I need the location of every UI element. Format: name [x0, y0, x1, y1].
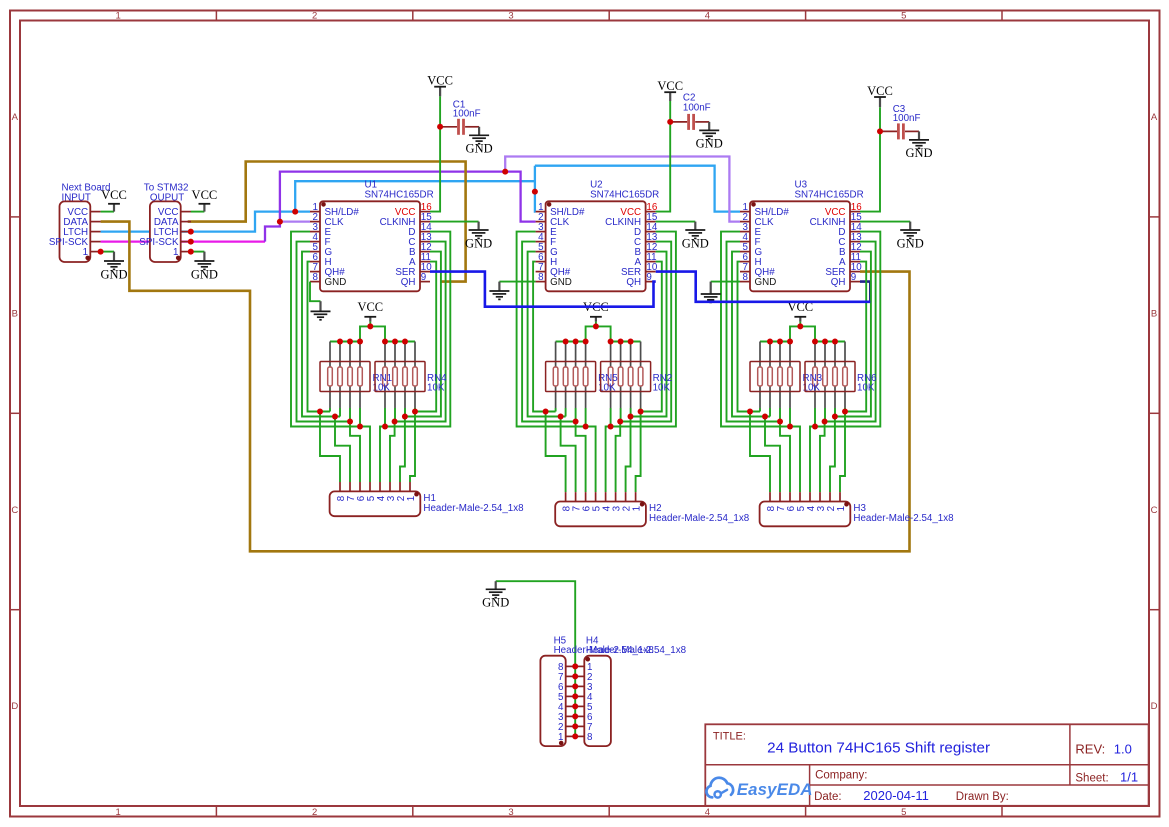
wire U3 pin11 A loop — [840, 262, 866, 493]
wire VCC rail RN2 — [596, 326, 641, 341]
svg-text:4: 4 — [705, 11, 710, 22]
junction row — [762, 414, 768, 420]
capacitor C3 100nF — [880, 104, 920, 139]
wire U3 pin12 B loop — [830, 252, 871, 493]
resistor leg 8 — [638, 342, 643, 412]
junction row — [332, 414, 338, 420]
svg-text:10K: 10K — [857, 383, 875, 394]
power VCC symbol top — [657, 79, 683, 101]
junction rail — [573, 339, 579, 345]
svg-text:2020-04-11: 2020-04-11 — [863, 788, 929, 803]
svg-text:Header-Male-2.54_1x8: Header-Male-2.54_1x8 — [853, 513, 954, 524]
wire U3 pin3 E loop — [721, 232, 800, 493]
svg-text:VCC: VCC — [427, 74, 453, 88]
junction row — [357, 424, 363, 430]
resistor leg 5 — [383, 342, 388, 427]
power VCC symbol — [357, 300, 383, 327]
resistor network RN1 box — [320, 362, 392, 394]
svg-text:QH: QH — [626, 277, 641, 288]
svg-text:QH: QH — [401, 277, 416, 288]
junction row — [787, 424, 793, 430]
junction cap — [437, 124, 443, 130]
wire U2 pin8 GND — [499, 281, 535, 283]
junction row — [583, 424, 589, 430]
wire U1 pin14 D loop — [380, 232, 450, 482]
wire U3 pin5 G loop — [732, 252, 770, 417]
resistor leg 8 — [413, 342, 418, 412]
svg-text:Sheet:: Sheet: — [1075, 772, 1108, 784]
junction SH/LD node U1 — [292, 209, 298, 215]
junction rail — [563, 339, 569, 345]
junction H4/H5 pin — [572, 673, 578, 679]
resistor leg 6 — [618, 342, 623, 422]
wire U3 pin15 CLKINH to GND — [860, 221, 910, 223]
wire U3 pin4 F loop — [727, 242, 791, 493]
junction row — [842, 409, 848, 415]
junction rail — [812, 339, 818, 345]
resistor network RN2 box — [601, 362, 673, 394]
svg-text:REV:: REV: — [1075, 741, 1105, 756]
wire LTCH net (cyan) — [101, 166, 740, 232]
svg-text:C: C — [1151, 505, 1158, 516]
junction SPI-SCK node mid — [502, 169, 508, 175]
wire DATA loop B (dark yellow) — [188, 162, 466, 282]
wire VCC rail RN6 — [800, 326, 845, 341]
svg-text:GND: GND — [755, 277, 777, 288]
junction row — [822, 419, 828, 425]
wire pin-1 to GND — [101, 251, 114, 253]
junction row — [638, 409, 644, 415]
svg-text:1.0: 1.0 — [1114, 741, 1132, 756]
junction row — [412, 409, 418, 415]
wire U2 pin6 H loop — [533, 262, 556, 412]
resistor leg 2 — [768, 342, 773, 417]
wire U2 pin14 D loop — [606, 232, 676, 493]
junction row — [777, 419, 783, 425]
power VCC symbol top — [427, 74, 453, 97]
junction rail — [777, 339, 783, 345]
junction row — [832, 414, 838, 420]
resistor leg 1 — [758, 342, 763, 412]
junction rail — [822, 339, 828, 345]
svg-text:GND: GND — [696, 137, 723, 151]
EasyEDA logo — [706, 778, 812, 799]
svg-text:Header-Male-2.54_1x8: Header-Male-2.54_1x8 — [586, 645, 687, 656]
IC U1 SN74HC165DR — [310, 180, 434, 292]
wire U2 pin13 C loop — [616, 242, 672, 493]
wire CLK U1 (light violet) — [280, 221, 310, 223]
wire U2 pin11 A loop — [636, 262, 662, 493]
junction CLK node — [277, 219, 283, 225]
svg-text:SN74HC165DR: SN74HC165DR — [590, 190, 659, 201]
junction VCC — [367, 323, 373, 329]
resistor leg 6 — [393, 342, 398, 422]
junction row — [608, 424, 614, 430]
wire U2 pin12 B loop — [626, 252, 667, 493]
svg-text:Header-Male-2.54_1x8: Header-Male-2.54_1x8 — [649, 513, 750, 524]
junction rail — [628, 339, 634, 345]
junction — [188, 249, 194, 255]
svg-text:Company:: Company: — [815, 770, 867, 782]
junction H4/H5 pin — [572, 703, 578, 709]
wire U1 pin4 F loop — [297, 242, 361, 482]
header H3 Header-Male-2.54_1x8 — [760, 492, 955, 526]
svg-text:1: 1 — [116, 11, 121, 22]
wire U3 pin6 H loop — [738, 262, 761, 412]
capacitor C2 100nF — [670, 93, 710, 130]
junction H4/H5 pin — [572, 693, 578, 699]
IC U2 SN74HC165DR — [536, 180, 660, 292]
junction rail — [832, 339, 838, 345]
svg-text:VCC: VCC — [357, 300, 383, 314]
wire U2 pin5 G loop — [528, 252, 566, 417]
svg-text:GND: GND — [905, 146, 932, 160]
resistor network RN5 box — [546, 362, 619, 394]
power VCC symbol top — [867, 84, 893, 107]
junction rail — [382, 339, 388, 345]
junction LTCH — [188, 229, 194, 235]
ground symbol U1 pin8 — [311, 301, 331, 320]
resistor network RN4 box — [375, 362, 447, 394]
header H4 Header-Male-2.54_1x8 — [576, 636, 687, 747]
svg-text:C: C — [11, 505, 18, 516]
junction H4/H5 pin — [572, 723, 578, 729]
svg-text:SN74HC165DR: SN74HC165DR — [795, 190, 864, 201]
junction row — [747, 409, 753, 415]
junction — [98, 249, 104, 255]
wire U3 pin16 VCC — [860, 107, 880, 211]
header H1 Header-Male-2.54_1x8 — [330, 482, 525, 516]
ground symbol — [100, 252, 127, 282]
connector OUPUT header — [139, 183, 191, 263]
junction row — [382, 424, 388, 430]
ground symbol CLKINH — [465, 222, 492, 251]
wire DATA loop A (dark yellow) — [101, 222, 910, 552]
svg-text:10K: 10K — [427, 383, 445, 394]
junction rail — [392, 339, 398, 345]
wire U2 pin4 F loop — [522, 242, 586, 493]
wire U3.QH elbow (navy) — [860, 282, 870, 302]
svg-text:GND: GND — [897, 236, 924, 250]
svg-text:100nF: 100nF — [683, 103, 711, 114]
svg-text:B: B — [12, 308, 18, 319]
ground symbol U3 pin8 — [701, 282, 721, 303]
junction row — [628, 414, 634, 420]
svg-text:Header-Male-2.54_1x8: Header-Male-2.54_1x8 — [423, 503, 524, 514]
capacitor C1 100nF — [440, 100, 480, 135]
svg-text:A: A — [1151, 112, 1158, 123]
ground symbol U2 pin8 — [489, 282, 509, 300]
wire VCC rail RN5 — [556, 326, 596, 341]
wire U2 pin3 E loop — [517, 232, 596, 493]
header H2 Header-Male-2.54_1x8 — [555, 492, 750, 526]
power VCC symbol — [583, 300, 609, 327]
junction rail — [337, 339, 343, 345]
resistor leg 3 — [348, 342, 353, 422]
wire U3 pin13 C loop — [820, 242, 876, 493]
svg-text:8: 8 — [538, 272, 544, 283]
wire U1 pin15 CLKINH to GND — [430, 221, 479, 223]
junction rail — [787, 339, 793, 345]
svg-text:QH: QH — [831, 277, 846, 288]
ground symbol cap — [696, 122, 723, 151]
junction SPI-SCK — [188, 239, 194, 245]
svg-text:GND: GND — [100, 267, 127, 281]
resistor leg 1 — [328, 342, 333, 412]
junction cap — [877, 128, 883, 134]
resistor leg 3 — [573, 342, 578, 422]
resistor leg 8 — [843, 342, 848, 412]
svg-text:GND: GND — [325, 277, 347, 288]
wire GND to H4 bus — [496, 581, 576, 736]
svg-text:8: 8 — [587, 732, 593, 743]
svg-text:OUPUT: OUPUT — [150, 193, 184, 204]
resistor leg 7 — [833, 342, 838, 417]
junction rail — [347, 339, 353, 345]
svg-text:EasyEDA: EasyEDA — [737, 780, 813, 799]
wire drop to header pin8 — [546, 412, 566, 493]
junction rail — [767, 339, 773, 345]
svg-text:GND: GND — [682, 236, 709, 250]
resistor leg 2 — [563, 342, 568, 417]
junction row — [317, 409, 323, 415]
junction H4/H5 pin — [572, 663, 578, 669]
svg-text:D: D — [11, 701, 18, 712]
junction rail — [357, 339, 363, 345]
svg-text:24 Button 74HC165 Shift regist: 24 Button 74HC165 Shift register — [767, 739, 990, 756]
svg-text:1: 1 — [406, 496, 417, 501]
ground symbol cap — [905, 131, 932, 160]
wire U1 pin5 G loop — [302, 252, 340, 417]
junction row — [402, 414, 408, 420]
svg-text:1: 1 — [836, 506, 847, 511]
wire SPI-SCK net (violet) — [265, 157, 740, 242]
header H5 Header-Male-2.54_1x8 — [540, 636, 654, 747]
junction rail — [608, 339, 614, 345]
junction row — [573, 419, 579, 425]
svg-text:3: 3 — [508, 11, 513, 22]
svg-text:INPUT: INPUT — [62, 193, 91, 204]
svg-text:TITLE:: TITLE: — [713, 731, 746, 743]
wire U2.SER to U3.QH (blue) — [656, 272, 871, 302]
wire drop to header pin8 — [320, 412, 340, 483]
svg-text:VCC: VCC — [101, 188, 127, 202]
wire pin-1 to GND — [191, 251, 205, 253]
svg-text:D: D — [1151, 701, 1158, 712]
connector INPUT header — [49, 183, 111, 263]
svg-text:GND: GND — [465, 236, 492, 250]
junction VCC — [593, 323, 599, 329]
svg-text:5: 5 — [901, 807, 906, 818]
svg-text:Date:: Date: — [814, 791, 842, 803]
svg-text:100nF: 100nF — [893, 113, 921, 124]
junction rail — [618, 339, 624, 345]
svg-text:2: 2 — [312, 11, 317, 22]
junction VCC — [797, 323, 803, 329]
svg-text:SN74HC165DR: SN74HC165DR — [365, 190, 434, 201]
resistor leg 5 — [813, 342, 818, 427]
junction row — [347, 419, 353, 425]
resistor leg 1 — [553, 342, 558, 412]
svg-text:9: 9 — [421, 272, 426, 283]
svg-text:2: 2 — [312, 807, 317, 818]
junction H4/H5 pin — [572, 683, 578, 689]
svg-text:GND: GND — [191, 267, 218, 281]
wire U3 pin8 GND — [711, 281, 740, 283]
junction SH/LD node U2 — [532, 189, 538, 195]
junction row — [543, 409, 549, 415]
ground symbol cap — [466, 127, 493, 156]
ground symbol — [191, 252, 218, 282]
junction row — [558, 414, 564, 420]
svg-text:VCC: VCC — [192, 188, 218, 202]
wire drop to header pin7 — [765, 417, 780, 493]
svg-text:5: 5 — [901, 11, 906, 22]
junction row — [392, 419, 398, 425]
wire VCC rail RN1 — [330, 326, 370, 341]
junction H4/H5 pin — [572, 713, 578, 719]
resistor leg 4 — [788, 342, 793, 427]
junction rail — [583, 339, 589, 345]
junction row — [812, 424, 818, 430]
resistor leg 2 — [338, 342, 343, 417]
power VCC symbol — [192, 188, 218, 212]
resistor network RN6 box — [805, 362, 877, 394]
svg-text:B: B — [1151, 308, 1157, 319]
power VCC symbol — [101, 188, 127, 212]
wire U1 pin12 B loop — [400, 252, 441, 482]
svg-text:3: 3 — [508, 807, 513, 818]
svg-text:8: 8 — [313, 272, 319, 283]
ground symbol CLKINH — [897, 222, 924, 251]
svg-text:1: 1 — [116, 807, 121, 818]
ground symbol H4 bus — [482, 581, 509, 609]
wire drop to header pin7 — [335, 417, 350, 483]
resistor leg 6 — [823, 342, 828, 422]
svg-text:A: A — [12, 112, 19, 123]
resistor leg 3 — [778, 342, 783, 422]
wire U2 pin15 CLKINH to GND — [656, 221, 696, 223]
svg-text:8: 8 — [743, 272, 749, 283]
junction rail — [402, 339, 408, 345]
wire U1 pin8 GND — [310, 282, 321, 302]
wire U1 pin16 VCC — [430, 96, 440, 211]
svg-text:GND: GND — [550, 277, 572, 288]
svg-text:10K: 10K — [653, 383, 671, 394]
svg-text:9: 9 — [646, 272, 651, 283]
wire VCC rail RN3 — [760, 326, 800, 341]
svg-text:100nF: 100nF — [453, 109, 481, 120]
junction row — [617, 419, 623, 425]
svg-text:GND: GND — [482, 596, 509, 610]
title block — [705, 724, 1148, 806]
wire VCC rail RN4 — [370, 326, 415, 341]
resistor leg 7 — [403, 342, 408, 417]
svg-text:Drawn By:: Drawn By: — [956, 791, 1009, 803]
wire drop to header pin8 — [750, 412, 770, 493]
wire VCC pin — [191, 211, 205, 213]
wire VCC pin — [101, 211, 114, 213]
svg-text:VCC: VCC — [867, 84, 893, 98]
resistor leg 4 — [358, 342, 363, 427]
resistor network RN3 box — [750, 362, 823, 394]
wire U2 pin16 VCC — [656, 101, 671, 212]
resistor leg 4 — [583, 342, 588, 427]
svg-text:1: 1 — [631, 506, 642, 511]
wire drop to header pin7 — [561, 417, 576, 493]
wire U1 pin6 H loop — [308, 262, 331, 412]
wire U1 pin13 C loop — [390, 242, 446, 482]
IC U3 SN74HC165DR — [740, 180, 864, 292]
junction H4/H5 pin — [572, 733, 578, 739]
svg-text:4: 4 — [705, 807, 710, 818]
svg-text:1/1: 1/1 — [1120, 770, 1138, 785]
resistor leg 5 — [608, 342, 613, 427]
junction cap — [667, 119, 673, 125]
wire U1 pin11 A loop — [410, 262, 436, 482]
svg-text:9: 9 — [851, 272, 856, 283]
svg-text:GND: GND — [466, 142, 493, 156]
power VCC symbol — [787, 300, 813, 327]
wire U1 pin3 E loop — [291, 232, 370, 482]
wire U1.SER to U2.QH (blue) — [430, 272, 656, 307]
resistor leg 7 — [628, 342, 633, 417]
wire U3 pin14 D loop — [810, 232, 880, 493]
ground symbol CLKINH — [682, 222, 709, 251]
wire SPI-SCK net (magenta segment) — [101, 240, 265, 242]
svg-text:VCC: VCC — [657, 79, 683, 93]
